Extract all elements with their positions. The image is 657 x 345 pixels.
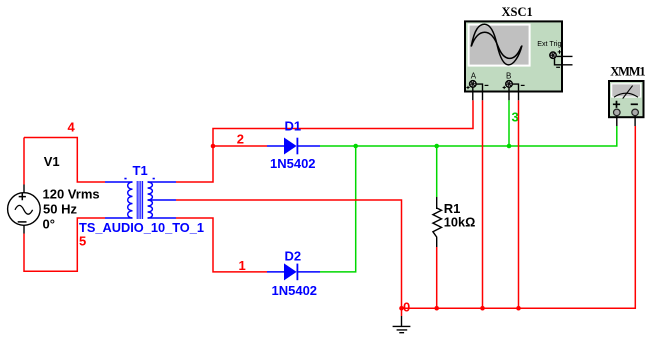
ext trig terminal — [550, 52, 557, 59]
svg-text:V1: V1 — [44, 154, 60, 169]
junction green at D2 branch — [353, 144, 358, 149]
minus mark — [631, 103, 638, 105]
svg-text:A: A — [471, 72, 477, 81]
svg-text:4: 4 — [68, 119, 76, 134]
svg-text:0: 0 — [403, 300, 410, 315]
scope trace A — [471, 24, 522, 65]
svg-text:10kΩ: 10kΩ — [444, 215, 476, 230]
resistor R1 — [433, 197, 442, 247]
svg-text:5: 5 — [79, 234, 86, 249]
svg-text:1: 1 — [239, 258, 246, 273]
wire net 0: center tap and ground bus — [176, 100, 635, 316]
oscilloscope XSC1 — [465, 21, 573, 100]
svg-text:120 Vrms: 120 Vrms — [43, 186, 100, 201]
multimeter XMM1 — [609, 81, 644, 126]
svg-text:XSC1: XSC1 — [502, 5, 533, 19]
junction R1 bottom — [434, 306, 439, 311]
svg-text:D2: D2 — [285, 249, 302, 264]
svg-text:0°: 0° — [43, 216, 55, 231]
junction scope A- — [480, 306, 485, 311]
plus mark — [613, 101, 620, 108]
svg-text:B: B — [506, 72, 511, 81]
wire net 4: V1 top loop to transformer primary top — [24, 138, 105, 185]
junction green at scope B+ branch — [507, 144, 512, 149]
junction at node 2 branch — [211, 144, 216, 149]
svg-text:3: 3 — [512, 110, 519, 125]
diode D1 — [267, 138, 320, 155]
junction scope B- — [516, 306, 521, 311]
svg-text:TS_AUDIO_10_TO_1: TS_AUDIO_10_TO_1 — [79, 220, 204, 235]
svg-text:1N5402: 1N5402 — [270, 156, 316, 171]
terminals — [614, 109, 621, 116]
diode D2 — [267, 263, 320, 280]
svg-text:T1: T1 — [133, 163, 148, 178]
svg-text:50 Hz: 50 Hz — [43, 201, 77, 216]
ground — [393, 316, 411, 333]
meter needle and scale — [614, 93, 638, 97]
wire net 5: V1 bottom loop to transformer primary bottom — [24, 218, 105, 271]
junction green at R1 branch — [434, 144, 439, 149]
svg-text:2: 2 — [237, 132, 244, 147]
svg-text:1N5402: 1N5402 — [272, 283, 318, 298]
svg-text:D1: D1 — [285, 119, 302, 134]
wire net 1: transformer secondary bottom to D2 anode — [176, 218, 267, 272]
svg-text:XMM1: XMM1 — [610, 65, 645, 79]
svg-text:Ext Trig: Ext Trig — [537, 39, 561, 48]
AC source V1 — [8, 185, 41, 234]
junction at ground node — [399, 306, 404, 311]
scope trace B — [471, 32, 521, 58]
wire net 3 (green): D1 cathode bus to XMM1 plus, with branches — [320, 100, 617, 272]
transformer T1 — [105, 179, 176, 219]
wire net 2: transformer secondary top to D1 anode and scope A+ — [176, 100, 473, 182]
